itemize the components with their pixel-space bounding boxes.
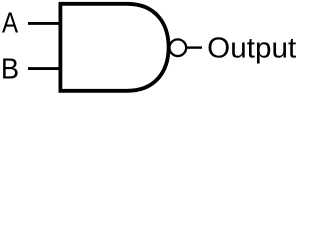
wire input B bbox=[28, 67, 62, 70]
svg-text:Output: Output bbox=[207, 31, 296, 63]
wire input A bbox=[28, 22, 62, 25]
inversion bubble bbox=[169, 39, 186, 56]
wire output bbox=[187, 46, 203, 48]
svg-text:A: A bbox=[2, 8, 19, 40]
NAND gate U1 body bbox=[60, 4, 168, 91]
svg-text:B: B bbox=[1, 54, 19, 86]
